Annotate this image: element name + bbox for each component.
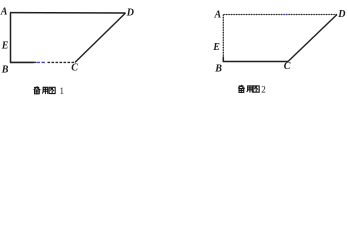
caption 2: hanzi yong (用) <box>247 86 252 92</box>
svg-text:C: C <box>284 61 291 72</box>
caption 1: hanzi tu (图) <box>49 87 55 93</box>
caption 1: hanzi yong (用) <box>42 87 47 93</box>
svg-text:A: A <box>214 10 222 21</box>
figure 1 side BC blue dashed part <box>37 61 47 63</box>
figure 2 side AB solid lower part <box>222 57 224 62</box>
figure 2 side AD underlay <box>224 14 338 16</box>
svg-text:E: E <box>212 42 220 53</box>
figure 2 side AD blue dot <box>284 14 288 16</box>
figure 1 side AD (top edge) <box>10 12 126 14</box>
svg-text:2: 2 <box>261 84 266 94</box>
figure 2 side AB (left edge, dotted) <box>222 15 224 58</box>
svg-text:C: C <box>71 63 78 74</box>
svg-text:B: B <box>1 65 9 76</box>
figure 1 side BC solid part <box>10 61 34 63</box>
caption 2: hanzi bei (备) <box>238 85 244 92</box>
svg-text:1: 1 <box>60 86 65 96</box>
figure 2 side BC (bottom edge) <box>223 61 288 63</box>
caption 2: hanzi tu (图) <box>253 86 259 92</box>
figure 2 side CD (diagonal) <box>288 15 337 62</box>
figure 1 side BC dashed part 2 <box>48 61 76 63</box>
svg-text:D: D <box>337 9 345 20</box>
caption 1: hanzi bei (备) <box>34 87 40 94</box>
figure 1 side BC dashed part <box>34 61 37 63</box>
figure 2 side AB underlay <box>222 15 224 58</box>
svg-text:E: E <box>1 41 9 52</box>
svg-text:D: D <box>126 8 134 19</box>
figure 2 side AD (top edge, dotted) <box>224 14 338 16</box>
figure 1 side CD (diagonal) <box>75 13 126 62</box>
figure 1 side AB (left edge) <box>10 13 12 63</box>
svg-text:B: B <box>214 64 222 75</box>
svg-text:A: A <box>0 7 8 18</box>
